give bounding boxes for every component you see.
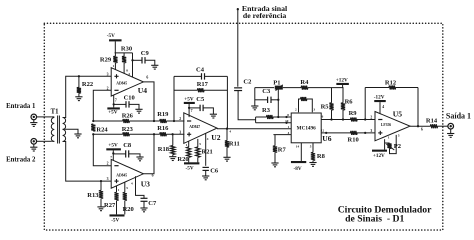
node at MC1496 pin 10 entry	[285, 122, 287, 124]
ground below R13	[97, 207, 104, 211]
wire R22 bottom lead to ground	[78, 93, 80, 97]
resistor R4	[300, 79, 309, 89]
svg-text:U3: U3	[141, 180, 150, 189]
svg-text:LF356: LF356	[381, 123, 391, 127]
svg-text:R17: R17	[197, 81, 209, 88]
svg-text:12: 12	[321, 128, 325, 132]
svg-text:T1: T1	[51, 108, 60, 115]
wire C9 left lead	[133, 59, 143, 61]
svg-text:C4: C4	[196, 67, 205, 74]
resistor R30	[121, 46, 132, 63]
wire U4 - input down the gain column	[93, 90, 111, 121]
wire C10 right lead to ground	[129, 104, 139, 109]
wire R6 top lead	[342, 88, 344, 103]
wire R14 to Saida connector	[438, 125, 448, 127]
transformer T1	[51, 108, 66, 143]
potentiometer P1	[273, 79, 283, 90]
wire R22 top lead	[78, 76, 80, 87]
ground below R7	[271, 163, 278, 167]
ground at C9	[151, 65, 158, 69]
ground below C6	[202, 176, 209, 180]
node U4 pin 7 / C10 junction	[113, 103, 115, 105]
svg-text:Saída 1: Saída 1	[446, 111, 471, 120]
svg-text:R19: R19	[157, 111, 169, 118]
svg-text:C5: C5	[196, 96, 205, 103]
svg-text:R26: R26	[122, 113, 134, 120]
wire upper line middle segment	[129, 120, 159, 122]
resistor R13	[87, 190, 103, 199]
wire R29 top lead	[114, 53, 116, 56]
wire input split bracket	[255, 117, 257, 123]
wire R21 to -5V bar	[197, 157, 199, 162]
svg-text:R11: R11	[229, 141, 240, 148]
wire R12 feedback top right	[396, 87, 419, 89]
svg-text:C2: C2	[243, 78, 251, 85]
svg-text:R13: R13	[87, 192, 99, 199]
wire +12V bar stem	[342, 85, 344, 88]
svg-text:6: 6	[152, 174, 154, 178]
connector Entrada 1	[31, 114, 37, 120]
wire reference input vertical into C2	[237, 8, 239, 87]
svg-text:2: 2	[295, 108, 297, 112]
svg-text:4: 4	[229, 129, 231, 133]
svg-text:-5V: -5V	[111, 218, 119, 224]
svg-text:de Sinais - D1: de Sinais - D1	[345, 213, 404, 224]
ground at C10	[135, 109, 142, 113]
wire MC1496 pin 4 line	[273, 134, 291, 136]
node R12 to U5 output	[417, 125, 419, 127]
wire C9 right lead to ground	[145, 60, 155, 65]
power bar -5V below U3	[110, 214, 125, 223]
svg-text:R22: R22	[82, 81, 93, 88]
capacitor C6	[203, 167, 219, 174]
wire R7 top lead	[274, 135, 276, 146]
wire R13 top lead	[100, 181, 102, 190]
svg-text:C6: C6	[210, 168, 219, 175]
capacitor C3	[262, 88, 271, 103]
wire U3 pin 4 stub to C7	[136, 176, 145, 198]
svg-text:P1: P1	[273, 79, 280, 86]
capacitor C10	[124, 94, 135, 107]
svg-text:3: 3	[107, 177, 109, 181]
resistor R20 below U2	[177, 147, 190, 163]
node U4 output junction on upper line	[153, 120, 155, 122]
wire gain column to U3 - input	[93, 134, 111, 166]
wire Entrada 2 connector to ground stub	[33, 144, 35, 147]
wire U4 output pin 6 down to upper line	[143, 82, 154, 121]
node on pin 12 line	[325, 132, 327, 134]
svg-text:AD845: AD845	[116, 173, 127, 177]
wire C4 top line left	[174, 75, 202, 77]
connector Entrada 2	[31, 139, 37, 145]
resistor R10	[348, 131, 359, 144]
node R18 junction on lower line	[171, 133, 173, 135]
node U3 output junction on lower line	[153, 133, 155, 135]
ground at Entrada 1	[30, 123, 37, 127]
wire C10 left lead	[114, 103, 126, 105]
svg-text:C8: C8	[123, 142, 132, 149]
ground at T1 center tap	[74, 134, 81, 138]
wire MC1496 pin 12 output line	[321, 132, 375, 134]
resistor R16	[157, 125, 169, 137]
svg-text:3: 3	[370, 129, 372, 133]
svg-text:5: 5	[310, 145, 312, 149]
svg-text:R3: R3	[262, 107, 271, 114]
resistor R11	[225, 141, 240, 148]
svg-text:R29: R29	[100, 56, 112, 63]
wire R5 bottom lead	[331, 110, 333, 120]
wire -5V distribution rail above U4	[115, 52, 133, 54]
svg-text:P2: P2	[394, 143, 401, 150]
svg-text:6: 6	[146, 76, 148, 80]
wire -5V bar stem	[114, 41, 116, 53]
node at MC1496 pin 8 entry	[285, 116, 287, 118]
wire C3 right lead	[271, 99, 278, 101]
node C9 tap on pin 4 drop	[131, 59, 133, 61]
power bar -5V above U4	[107, 33, 122, 41]
wire U2 pin 4 stub to C6	[205, 133, 207, 166]
svg-text:+5V: +5V	[184, 96, 194, 102]
wire R18 top lead	[172, 134, 174, 145]
svg-text:C10: C10	[124, 94, 135, 101]
node on pin 12 line right	[364, 132, 366, 134]
wire -5V rail down to U4 pin 4	[132, 53, 134, 77]
ground below R18	[169, 157, 176, 161]
node U2 - feedback junction	[173, 120, 175, 122]
resistor R23	[122, 126, 134, 136]
svg-text:U4: U4	[138, 86, 147, 95]
wire P2 bottom loop to U5 pin 5	[390, 135, 397, 154]
svg-text:Entrada 2: Entrada 2	[6, 156, 36, 163]
wire U5 output	[410, 125, 431, 127]
resistor R9	[349, 110, 358, 121]
wire C4 top line right	[205, 75, 228, 77]
wire R29 to U4 pin 1 stub	[114, 63, 116, 70]
svg-text:R10: R10	[348, 136, 359, 143]
svg-text:4: 4	[382, 105, 384, 109]
svg-text:R16: R16	[157, 125, 169, 132]
svg-text:C7: C7	[148, 200, 157, 207]
wire R20 to -5V bar	[124, 201, 126, 215]
capacitor C9	[141, 50, 150, 64]
wire R8 bottom lead to ground	[312, 161, 314, 163]
resistor R7	[273, 146, 287, 154]
svg-text:R5: R5	[321, 104, 330, 111]
svg-text:R8: R8	[317, 153, 326, 160]
wire C7 bottom lead to ground	[143, 201, 145, 208]
wire C3 ground branch	[254, 88, 256, 106]
node U2 output / R11 / feedback junction	[226, 128, 228, 130]
wire R5 top lead	[331, 88, 333, 103]
wire U3 pin 5 stub	[124, 182, 126, 192]
node R5 to pin 6 line	[330, 118, 332, 120]
wire C5 right lead to ground	[203, 108, 213, 114]
wire -12V stem to U5 pin 4	[379, 102, 381, 113]
wire C3 left lead	[255, 99, 268, 101]
svg-text:5: 5	[126, 186, 128, 190]
power bar +12V for MC1496	[336, 78, 349, 85]
svg-text:R21: R21	[202, 149, 213, 156]
wire R4 to +12V stem	[308, 87, 344, 89]
node upper line left junction	[92, 120, 94, 122]
capacitor C2	[234, 78, 251, 90]
svg-text:+5V: +5V	[108, 109, 118, 115]
resistor R21	[196, 147, 213, 157]
resistor R17	[197, 81, 209, 92]
wire Entrada 1 to T1 primary top	[37, 116, 52, 118]
svg-text:C9: C9	[141, 50, 150, 57]
resistor gain loop R on pins 2-3	[301, 97, 307, 101]
svg-text:-12V: -12V	[374, 94, 385, 100]
wire R11 bottom lead to ground	[226, 147, 228, 157]
power bar -5V below U2	[184, 162, 199, 171]
wire MC1496 pin 14 to -8V	[300, 143, 302, 161]
node U3 + input / R13 junction	[100, 180, 102, 182]
resistor R20 below U3	[123, 192, 134, 213]
potentiometer P2	[387, 143, 401, 150]
svg-text:2: 2	[107, 162, 109, 166]
wire C3 node vertical riser	[277, 88, 279, 117]
svg-text:+12V: +12V	[336, 78, 348, 84]
resistor R14	[426, 118, 438, 129]
svg-text:+12V: +12V	[373, 153, 385, 159]
svg-text:R18: R18	[158, 146, 170, 153]
connector Saida 1	[448, 123, 454, 129]
wire Entrada 2 to T1 primary bottom	[37, 140, 52, 142]
wire U5 pin 1 stub	[384, 139, 386, 149]
svg-text:1: 1	[113, 64, 115, 68]
capacitor C8	[123, 142, 132, 157]
wire U2 pin 5 stub	[197, 139, 199, 147]
power bar +5V below U4	[107, 107, 120, 115]
svg-text:R24: R24	[96, 126, 108, 133]
node U4 + input / R22 junction	[78, 75, 80, 77]
wire split bottom branch to MC1496 pin 10	[256, 122, 291, 124]
capacitor C5	[196, 96, 205, 111]
svg-text:R7: R7	[278, 147, 287, 154]
resistor R29	[100, 56, 118, 63]
svg-text:Entrada 1: Entrada 1	[6, 103, 36, 110]
svg-text:U5: U5	[393, 110, 402, 119]
wire gain loop right stub pin 3	[307, 99, 313, 112]
ground at Saida 1	[447, 134, 454, 138]
wire R18 bottom lead to ground	[172, 155, 174, 157]
svg-text:-5V: -5V	[186, 166, 194, 172]
svg-text:3: 3	[179, 130, 181, 134]
wire R11 top lead	[226, 129, 228, 141]
power bar -12V above U5	[374, 94, 386, 102]
wire C8 right lead to ground	[129, 154, 140, 157]
wire R12 feedback top left	[365, 87, 389, 89]
svg-text:de referência: de referência	[243, 11, 286, 20]
svg-text:R12: R12	[385, 80, 396, 87]
svg-text:R30: R30	[121, 46, 132, 53]
node U3 pin 7 / C8 junction	[112, 152, 114, 154]
resistor R18	[158, 146, 175, 155]
resistor R12	[385, 80, 396, 90]
svg-text:3: 3	[107, 72, 109, 76]
svg-text:6: 6	[421, 128, 423, 132]
ground below R8	[309, 163, 316, 167]
ground at Entrada 2	[30, 147, 37, 151]
wire T1 secondary top to U4 + input	[63, 76, 112, 117]
wire R12 feedback right vertical	[417, 88, 419, 127]
wire U2 output line	[217, 128, 291, 130]
wire MC1496 pin 6 output line	[321, 119, 375, 121]
svg-text:R20: R20	[177, 156, 188, 163]
svg-text:R20: R20	[123, 206, 134, 213]
svg-text:R27: R27	[104, 202, 116, 209]
svg-text:7: 7	[110, 155, 112, 159]
svg-text:R6: R6	[345, 98, 354, 105]
resistor R3	[262, 107, 273, 119]
wire C5 left lead	[189, 107, 200, 109]
svg-text:7: 7	[191, 109, 193, 113]
dashed enclosure border	[44, 23, 443, 230]
svg-text:U6: U6	[322, 134, 331, 143]
ground at C5	[210, 114, 217, 118]
ground below R11	[223, 157, 230, 161]
wire R7 bottom lead to ground	[274, 152, 276, 163]
wire R17 line right	[204, 89, 227, 91]
node U2 pin 7 / C5 junction	[188, 107, 190, 109]
wire lower line left segment	[93, 133, 123, 135]
wire upper line into U2 - input	[166, 120, 184, 122]
op-amp U5	[370, 110, 410, 141]
svg-text:4: 4	[131, 182, 133, 186]
svg-text:7: 7	[115, 99, 117, 103]
wire feedback right vertical to U2 output	[226, 76, 228, 128]
svg-text:5: 5	[398, 133, 400, 137]
wire lower line middle segment	[129, 133, 159, 135]
wire U2 pin 1 stub	[188, 141, 190, 147]
svg-text:14: 14	[296, 145, 300, 149]
capacitor C4	[196, 67, 205, 80]
op-amp U3	[107, 159, 151, 188]
svg-text:1: 1	[118, 188, 120, 192]
ground at C8	[136, 157, 143, 161]
node R6 to pin 6 line	[342, 118, 344, 120]
power bar +5V above U3	[106, 143, 121, 151]
svg-text:3: 3	[314, 108, 316, 112]
wire R3 to MC1496 pin 8	[273, 116, 291, 118]
svg-text:2: 2	[107, 86, 109, 90]
wire R20 below U2 to -5V bar	[188, 157, 190, 162]
svg-text:AD847: AD847	[189, 125, 200, 129]
svg-text:MC1496: MC1496	[297, 126, 316, 132]
wire T1 center tap to ground	[63, 129, 78, 134]
svg-text:2: 2	[179, 117, 181, 121]
wire U2 pin 7 stub up	[188, 104, 190, 117]
svg-text:C3: C3	[262, 88, 271, 95]
wire gain loop left stub pin 2	[299, 99, 301, 112]
wire upper line left segment	[93, 120, 123, 122]
svg-text:1: 1	[388, 135, 390, 139]
resistor R6	[341, 98, 353, 110]
wire R27 to -5V bar	[116, 201, 118, 215]
wire C2 bottom to MC1496 input split	[238, 91, 256, 120]
IC U6 MC1496	[291, 113, 332, 143]
svg-text:U2: U2	[211, 133, 220, 142]
svg-text:4: 4	[128, 72, 130, 76]
resistor R5	[321, 103, 334, 111]
wire R30 to U4 pin 8 stub	[123, 63, 125, 74]
wire P1 to R4	[283, 87, 301, 89]
svg-text:2: 2	[370, 116, 372, 120]
wire ground leg to P1	[255, 87, 274, 89]
wire Saida connector ground stub	[450, 129, 452, 134]
node reference input terminal	[237, 8, 239, 10]
svg-text:5: 5	[199, 142, 201, 146]
resistor R24	[91, 124, 108, 133]
svg-text:1: 1	[186, 143, 188, 147]
wire C8 left lead	[113, 153, 125, 155]
power bar +12V below U5	[372, 150, 387, 159]
ground below R22	[75, 97, 82, 101]
wire R30 top lead	[123, 53, 125, 56]
node R12 junction on pin 6 line	[364, 118, 366, 120]
wire T1 secondary bottom to U3 + input	[63, 142, 112, 182]
resistor R26	[122, 113, 134, 123]
wire U4 pin 7 stub down	[113, 95, 115, 107]
svg-text:R4: R4	[300, 79, 309, 86]
capacitor C7	[141, 198, 157, 207]
wire C6 bottom lead to ground	[205, 170, 207, 176]
resistor R22	[77, 81, 93, 93]
ground below C7	[140, 208, 147, 212]
wire feedback left vertical	[173, 76, 175, 121]
op-amp U2	[179, 113, 221, 144]
wire P2 top tie	[385, 142, 390, 144]
wire lower line into U2 + input	[166, 133, 184, 135]
svg-text:10: 10	[285, 119, 289, 123]
svg-text:6: 6	[322, 115, 324, 119]
op-amp U4	[107, 68, 148, 96]
resistor R19	[157, 111, 169, 123]
node C3 to riser junction	[277, 99, 279, 101]
svg-text:AD845: AD845	[116, 82, 127, 86]
svg-text:R9: R9	[349, 110, 358, 117]
node R3 output / C3 junction	[277, 116, 279, 118]
potentiometer P2 wiper arrow	[386, 144, 394, 150]
svg-text:-8V: -8V	[294, 166, 302, 172]
wire R13 bottom lead to ground	[100, 199, 102, 207]
wire MC1496 pin 5 stub	[312, 143, 314, 153]
svg-text:-5V: -5V	[107, 33, 115, 39]
wire split top branch to R3	[256, 116, 267, 118]
resistor R8	[311, 152, 326, 160]
svg-text:4: 4	[207, 137, 209, 141]
svg-text:R23: R23	[122, 126, 134, 133]
wire U3 output pin 6 up to lower line	[143, 134, 154, 174]
svg-text:R14: R14	[426, 118, 438, 125]
power bar +5V above U2	[184, 96, 195, 104]
wire U3 pin 1 stub	[116, 186, 118, 192]
wire R6 bottom lead	[342, 110, 344, 120]
wire U3 pin 7 stub up	[112, 150, 114, 160]
svg-text:+5V: +5V	[108, 143, 118, 149]
wire R12 feedback left vertical	[364, 88, 366, 120]
wire R17 line left	[174, 89, 197, 91]
node lower line left junction	[92, 133, 94, 135]
power bar -8V below MC1496	[291, 161, 306, 172]
ground below C3	[251, 106, 258, 110]
wire Entrada 1 connector to ground stub	[33, 120, 35, 123]
resistor R27	[104, 192, 119, 209]
